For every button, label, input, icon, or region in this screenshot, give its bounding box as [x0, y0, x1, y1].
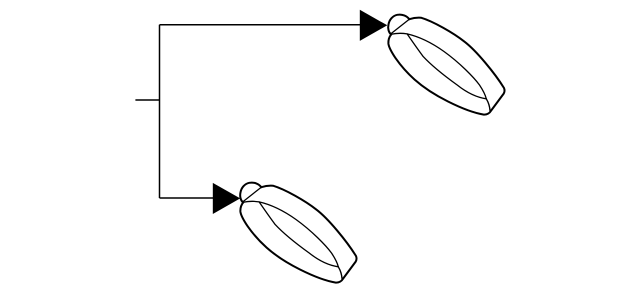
bottom horizontal leader	[160, 197, 214, 199]
cap dome	[388, 15, 409, 35]
cap chamfer edge	[391, 19, 409, 34]
vertical leader	[159, 25, 161, 198]
arrow 1	[360, 10, 388, 41]
bore chord arc	[407, 34, 486, 99]
bulb socket assembly 1 (upper right)	[388, 15, 504, 115]
outer body silhouette	[388, 18, 504, 115]
rim upper arc	[391, 33, 486, 98]
bulb socket assembly 2 (lower)	[240, 183, 356, 283]
end seam	[486, 99, 490, 111]
leader lines	[135, 25, 360, 198]
arrow 2	[213, 183, 240, 214]
left tick	[135, 99, 159, 101]
top horizontal leader	[160, 24, 361, 26]
